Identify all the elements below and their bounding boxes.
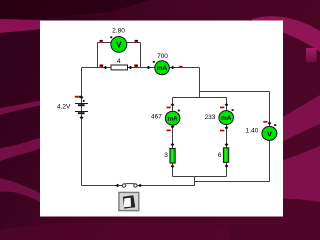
svg-text:4.2V: 4.2V	[57, 103, 71, 110]
bottom soft band	[0, 222, 230, 240]
left mid ribbon	[0, 137, 42, 161]
ribbon bottom-right	[240, 146, 320, 204]
wire parallel top rail	[173, 97, 227, 99]
ammeter A3	[219, 111, 234, 125]
wire main bottom rail right of switch	[137, 185, 195, 187]
svg-text:mA: mA	[157, 65, 168, 72]
R1 marker right black/red	[134, 65, 138, 67]
bright square right	[306, 48, 317, 62]
R3 terminal diamonds	[225, 143, 229, 146]
svg-text:mA: mA	[221, 115, 232, 122]
wire branch1 vertical	[172, 98, 174, 177]
wire voltmeter loop left vertical	[97, 43, 99, 68]
svg-text:1.40: 1.40	[246, 128, 259, 135]
top-left light band	[0, 19, 44, 33]
switch S1 contacts	[122, 184, 125, 187]
resistor R2 value 3	[170, 149, 175, 164]
battery terminal marker red/black	[75, 96, 79, 98]
switch S1 rocker icon dark frame	[123, 195, 135, 208]
R1 marker left black/red	[100, 65, 104, 67]
A2 marker bottom red	[167, 130, 171, 132]
A2 plus dot	[178, 110, 180, 112]
A3 terminal diamonds	[225, 103, 229, 106]
battery plus dot	[83, 100, 85, 102]
A3 plus dot	[232, 109, 234, 111]
svg-text:mA: mA	[168, 116, 179, 123]
A3 marker top red	[220, 107, 224, 109]
wire voltmeter V2 bottom	[195, 181, 270, 183]
A1 terminal diamonds	[147, 66, 151, 69]
wire voltmeter V2 vertical	[269, 92, 271, 182]
svg-text:3: 3	[164, 152, 168, 159]
voltmeter U2	[262, 126, 277, 140]
wire junction vertical	[194, 177, 196, 186]
resistor R1 value 4	[111, 65, 128, 70]
wire branch2 vertical	[226, 98, 228, 177]
battery terminal diamonds	[80, 96, 84, 99]
A2 terminal diamonds	[171, 103, 175, 106]
switch S1 icon box	[119, 192, 139, 210]
ribbon top-right swoosh	[252, 16, 320, 52]
U2 marker top red	[263, 121, 267, 123]
wire right corner vertical	[199, 68, 201, 98]
left thin ribbon	[0, 100, 42, 115]
voltmeter U1	[111, 37, 127, 53]
U2 terminal diamond	[268, 122, 272, 125]
ammeter A2	[165, 111, 180, 125]
R1 terminal diamonds	[104, 66, 108, 69]
svg-text:V: V	[116, 40, 122, 49]
svg-text:6: 6	[218, 152, 222, 159]
R2 terminal diamonds	[171, 143, 175, 146]
wire to voltmeter V2 top	[200, 91, 270, 93]
svg-text:V: V	[267, 131, 272, 138]
svg-text:700: 700	[157, 53, 168, 60]
switch S1 rocker icon white face	[124, 198, 131, 208]
wire main top	[82, 67, 200, 69]
svg-text:467: 467	[151, 114, 162, 121]
white slide area	[40, 21, 283, 217]
left bottom ribbon	[0, 178, 40, 202]
svg-text:4: 4	[117, 58, 121, 65]
wire main bottom rail left of switch	[82, 185, 123, 187]
wire voltmeter loop right vertical	[140, 43, 142, 68]
voltmeter U1 marker right black/red	[135, 40, 138, 42]
switch S1 lever	[125, 183, 134, 185]
top-left dark corner wedge	[0, 0, 150, 22]
ammeter A1	[155, 61, 170, 75]
ammeter A1 plus dot	[153, 61, 155, 63]
A2 marker top red	[167, 107, 171, 109]
wire battery vertical	[81, 68, 83, 186]
U2 plus dot	[274, 124, 276, 126]
voltmeter U1 plus dot	[110, 36, 112, 38]
wire parallel bottom rail	[173, 176, 227, 178]
voltmeter U1 marker left black/red	[100, 40, 103, 42]
ribbon mid-right	[240, 95, 320, 168]
switch S1 terminal diamonds	[116, 184, 120, 187]
svg-text:233: 233	[205, 114, 216, 121]
battery B1 plates	[75, 104, 88, 114]
resistor R3 value 6	[223, 148, 228, 163]
A3 marker bottom red	[220, 130, 224, 132]
svg-text:2.80: 2.80	[112, 28, 125, 35]
wire voltmeter loop top	[98, 42, 141, 44]
A1 marker right red	[179, 66, 183, 68]
